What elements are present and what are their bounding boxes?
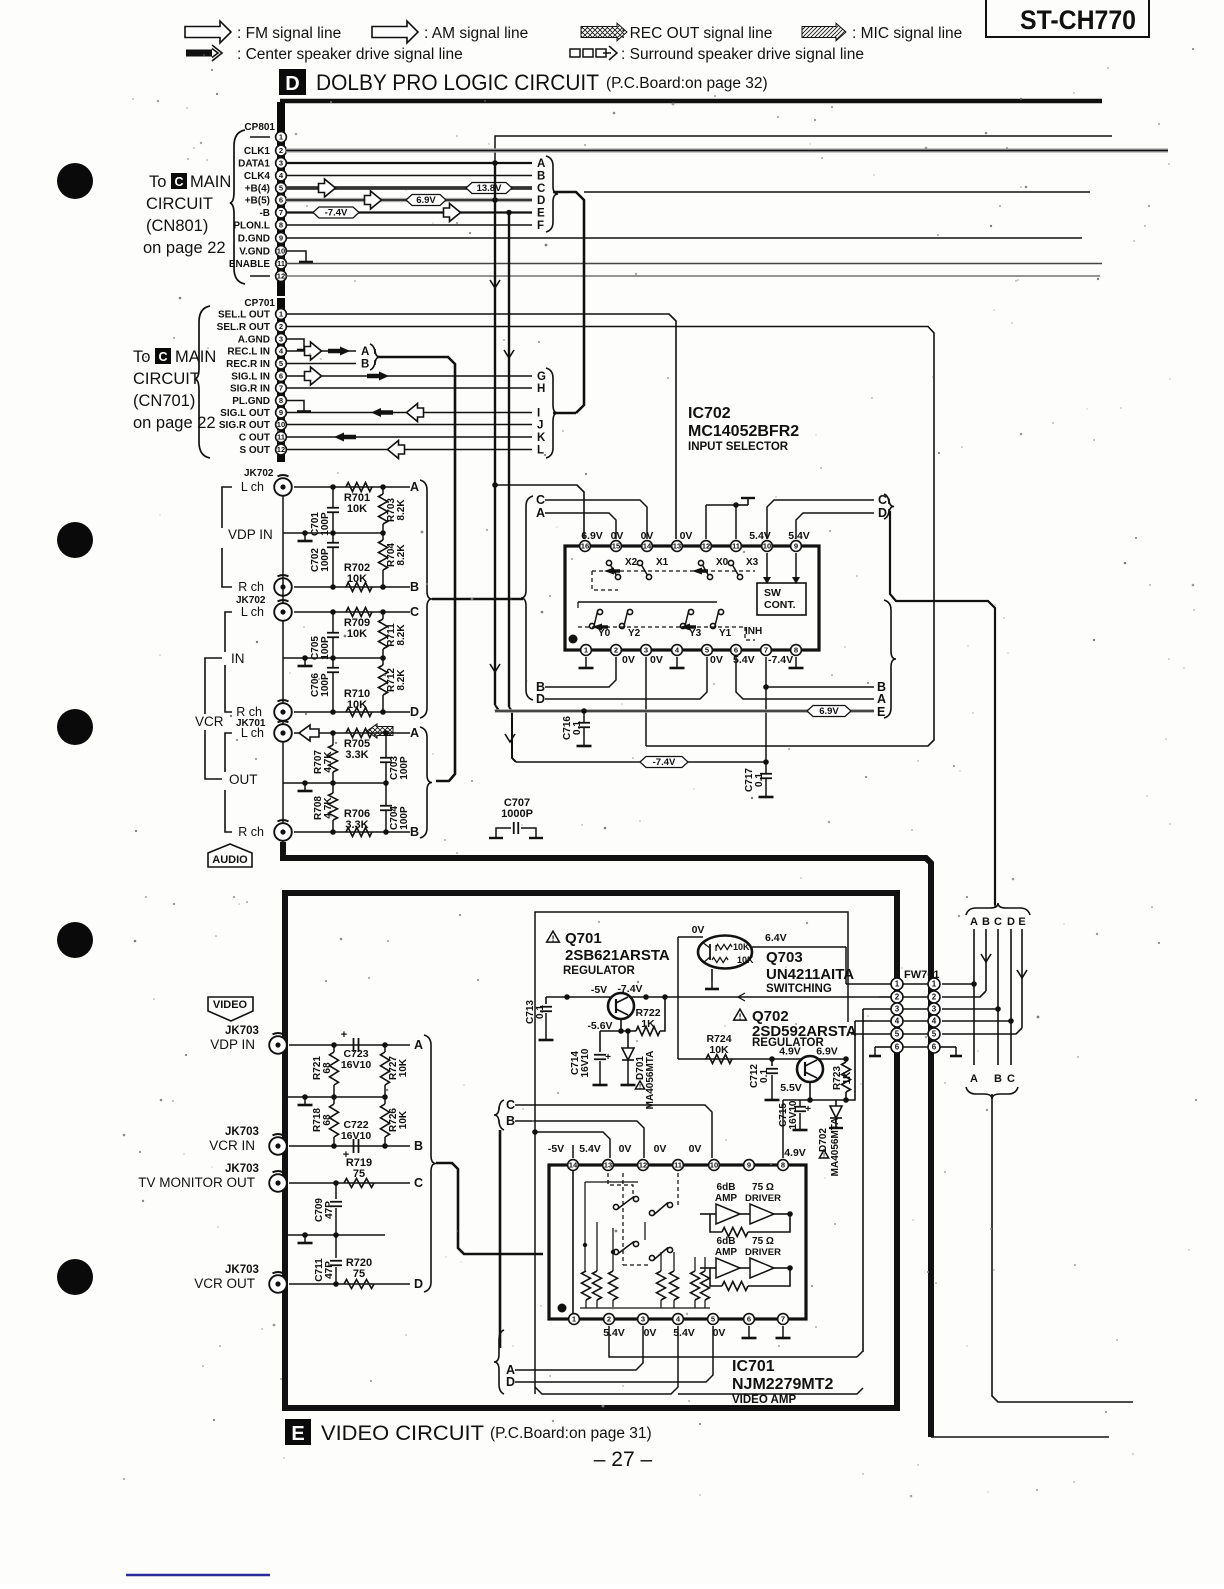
svg-text:13.8V: 13.8V [477, 183, 502, 194]
svg-text:-7.4V: -7.4V [653, 757, 676, 768]
node +B(5) junction [492, 197, 498, 203]
jack JK703 VCR IN [269, 1137, 287, 1155]
wire pin4 down [535, 1326, 678, 1394]
CP801 pin 11 ENABLE [229, 258, 287, 270]
wire R ch row D [294, 711, 410, 713]
svg-text:To: To [133, 348, 150, 366]
CP701 pin 4 REC.L IN [227, 346, 286, 358]
punch hole 2 [57, 522, 93, 558]
resistor R701 [346, 483, 372, 492]
wire VCR OUT row [289, 1283, 410, 1285]
resistor R723 [845, 1059, 847, 1062]
IC701 pin 14 [568, 1160, 579, 1171]
legend REC OUT signal line arrow [581, 23, 627, 41]
wire REC.R IN to B [286, 363, 356, 365]
net column A [973, 929, 975, 1065]
IC702 pin 4 [672, 645, 683, 656]
svg-text:D702: D702 [818, 1128, 829, 1152]
wire mid rail group2 [283, 657, 383, 659]
resistor R710 [346, 708, 372, 717]
FW701 inter wires [903, 983, 928, 985]
jack JK702 L ch [274, 478, 292, 496]
wire pins 11 12 ground [705, 505, 707, 539]
punch hole 5 [57, 1259, 93, 1295]
svg-text:A: A [361, 346, 369, 358]
IC702 pin 14 [642, 541, 653, 552]
punch hole 3 [57, 709, 93, 745]
svg-text:10: 10 [710, 1161, 718, 1170]
bracket C B video [494, 1100, 504, 1130]
svg-text:B: B [361, 359, 369, 371]
wire pin6 to A right [736, 657, 874, 699]
svg-text:: Center speaker drive signal: : Center speaker drive signal line [237, 46, 463, 63]
svg-text:ST-CH770: ST-CH770 [1020, 5, 1136, 35]
jack JK701 R ch [274, 823, 292, 841]
node rail C713 [564, 994, 570, 1000]
svg-text:1: 1 [895, 980, 900, 989]
capacitor C702 [327, 542, 339, 544]
wire FW5 to E [942, 1028, 1022, 1034]
svg-text:3: 3 [279, 335, 283, 344]
wire pin1 ground [585, 657, 587, 668]
transistor Q703 pack [698, 936, 752, 969]
svg-text:A: A [410, 726, 419, 740]
svg-text:-B: -B [259, 208, 270, 219]
svg-text:SW: SW [764, 587, 781, 599]
IC702 pin9 internal arrow [795, 553, 797, 577]
svg-text:Q701: Q701 [565, 930, 602, 947]
wire pin7 junctions [765, 657, 767, 762]
svg-text:DRIVER: DRIVER [745, 1247, 781, 1258]
wire SEL.R OUT to audio bus [286, 327, 934, 747]
svg-text:SWITCHING: SWITCHING [766, 983, 832, 995]
bracket IN [225, 612, 232, 652]
ground video rail 2 [304, 1235, 306, 1243]
wire 6.9V bus vertical [494, 163, 496, 705]
wire B right [766, 686, 874, 688]
svg-text:2: 2 [607, 1315, 611, 1324]
wire L ch row A jk701 [294, 732, 410, 734]
arrow on +B(4) [319, 179, 336, 197]
svg-text:NJM2279MT2: NJM2279MT2 [732, 1376, 833, 1393]
wire R ch row B jk701 [294, 831, 410, 833]
svg-text:CLK1: CLK1 [244, 146, 271, 157]
legend MIC signal line arrow [802, 23, 846, 41]
svg-text:JK702: JK702 [244, 468, 274, 479]
svg-text:0.1: 0.1 [572, 721, 583, 735]
IC702 pin 10 [762, 541, 773, 552]
svg-text:10K: 10K [398, 1110, 409, 1129]
legend surround speaker arrow [570, 46, 617, 60]
bracket VDP IN [222, 487, 232, 528]
svg-text:13: 13 [673, 542, 681, 551]
svg-text:INPUT SELECTOR: INPUT SELECTOR [688, 441, 789, 453]
IC701 pin 8 [778, 1160, 789, 1171]
punch hole 4 [57, 922, 93, 958]
svg-text:6: 6 [279, 196, 283, 205]
FW701 pin 2 right [928, 991, 940, 1003]
svg-text:7: 7 [781, 1315, 785, 1324]
svg-text:C: C [410, 605, 419, 619]
capacitor C704 [380, 805, 392, 807]
wire Q703 base [678, 936, 703, 938]
svg-text:8: 8 [279, 396, 283, 405]
capacitor C705 [327, 632, 339, 634]
svg-text:X2: X2 [625, 557, 638, 568]
svg-text:L ch: L ch [241, 726, 264, 740]
svg-text:H: H [537, 383, 545, 395]
wire SIG.L IN to G [286, 375, 532, 377]
resistor R706 [346, 828, 372, 837]
IC701 switch a [613, 1204, 618, 1209]
wire FW3 to C [942, 1008, 998, 1010]
FW701 pin 5 left [891, 1028, 903, 1040]
wire CLK4 to B [286, 175, 532, 177]
IC702 switch X1 [637, 560, 642, 565]
wire A-D bus to IC702 brackets [432, 598, 523, 601]
legend center speaker arrow [186, 50, 212, 57]
title separator rule [280, 99, 1102, 104]
svg-text:9: 9 [794, 542, 798, 551]
svg-text:A.GND: A.GND [238, 335, 270, 346]
arrow on S OUT [388, 441, 405, 459]
svg-text:CP701: CP701 [244, 298, 275, 309]
svg-text:6.9V: 6.9V [819, 706, 839, 717]
IC701 switch b [613, 1249, 618, 1254]
IC702 switch Y3 [680, 623, 685, 628]
audio tag [208, 844, 252, 867]
wire IC701 pin6 ground [748, 1326, 750, 1338]
wire brace stem [994, 905, 996, 908]
label -7.4V rail [640, 757, 688, 768]
svg-text:I: I [537, 408, 540, 420]
arrows on SIG.L IN [305, 367, 322, 385]
svg-text:1K: 1K [842, 1071, 853, 1085]
svg-text:(P.C.Board:on page 32): (P.C.Board:on page 32) [606, 75, 768, 92]
svg-text:-5V: -5V [591, 984, 607, 996]
svg-text:100P: 100P [320, 512, 331, 536]
IC701 pin 11 [673, 1160, 684, 1171]
resistor R712 [382, 658, 384, 665]
svg-text:100P: 100P [320, 673, 331, 697]
svg-text:VDP IN: VDP IN [210, 1037, 255, 1052]
resistor R708 [332, 783, 334, 793]
svg-text:!: ! [639, 1083, 641, 1090]
IC702 pin 15 [611, 541, 622, 552]
ground mid rail g2 [304, 658, 306, 666]
svg-text:J: J [537, 420, 543, 432]
svg-text:on page 22: on page 22 [133, 414, 216, 432]
svg-text:16V10: 16V10 [341, 1130, 372, 1142]
wire mid rail group1 [283, 532, 383, 534]
svg-text:ENABLE: ENABLE [229, 259, 270, 270]
IC702 pin 1 [581, 645, 592, 656]
bottom blue rule [126, 1574, 270, 1577]
IC702 pin1 marker [569, 635, 578, 644]
svg-text:B: B [994, 1073, 1002, 1085]
IC702 pin 6 [731, 645, 742, 656]
resistor R726 [384, 1097, 386, 1104]
svg-text:12: 12 [277, 272, 285, 281]
svg-text:(CN801): (CN801) [146, 217, 208, 235]
wire FW701-6 ground right [940, 1046, 956, 1048]
wire A to pin15 [545, 513, 616, 539]
svg-text:75: 75 [353, 1168, 365, 1180]
svg-text:11: 11 [674, 1161, 683, 1170]
resistor R707 [332, 733, 334, 745]
node mid rail g1 a [330, 530, 336, 536]
svg-text:100P: 100P [399, 756, 410, 780]
wire REC bus to JK701 [378, 357, 455, 781]
node C716 tap [581, 708, 587, 714]
wire pin14 riser [572, 1145, 574, 1158]
svg-text:X0: X0 [716, 557, 729, 568]
CP701 pin 1 SEL.L OUT [218, 309, 286, 321]
resistor R702 [346, 583, 372, 592]
svg-text:AMP: AMP [715, 1247, 738, 1258]
IC702 switch Y1 [710, 623, 715, 628]
bracket A D video out [494, 1330, 504, 1394]
svg-text:4: 4 [932, 1017, 937, 1026]
svg-text:0V: 0V [654, 1143, 667, 1155]
connector CP701 body [277, 298, 285, 462]
svg-text:L ch: L ch [241, 480, 264, 494]
wire Q702 emitter [809, 1082, 811, 1100]
jack JK701 L ch [274, 724, 292, 742]
FW701 pin 4 right [928, 1015, 940, 1027]
arrows on SIG.L OUT [371, 408, 393, 417]
capacitor C722 series [353, 1139, 355, 1153]
svg-text:0V: 0V [710, 654, 723, 666]
video box [285, 893, 897, 1408]
resistor R718 [333, 1097, 335, 1104]
svg-text:68: 68 [322, 1062, 333, 1074]
wire C to pin10 [515, 1105, 712, 1158]
svg-text:CP801: CP801 [244, 122, 275, 133]
arrow on C OUT [334, 433, 356, 442]
svg-text:11: 11 [277, 259, 286, 268]
svg-text:+B(5): +B(5) [245, 196, 270, 207]
capacitor C711 [335, 1235, 337, 1258]
svg-text:F: F [537, 220, 544, 232]
svg-text:X3: X3 [746, 557, 759, 568]
svg-text:8: 8 [279, 221, 283, 230]
label 6.9V on E [807, 706, 851, 717]
svg-text:0V: 0V [692, 924, 705, 936]
CP701 pin 11 C OUT [239, 432, 287, 444]
svg-text:CONT.: CONT. [764, 599, 796, 611]
svg-text:16V10: 16V10 [341, 1059, 372, 1071]
wire video A-D bus [436, 1163, 543, 1254]
ground mid rail g1 [304, 533, 306, 541]
svg-text:6dB: 6dB [717, 1236, 736, 1247]
svg-text:L: L [537, 445, 544, 457]
CP701 pin 7 SIG.R IN [230, 383, 286, 395]
wire A-F bus to right [553, 192, 584, 413]
wire SEL.L OUT to IC702 pin13 [286, 314, 676, 539]
IC701 pin 3 [638, 1314, 649, 1325]
resistor R721 [331, 1042, 337, 1048]
wire SIG.R IN to H [286, 387, 532, 389]
node 6.9V bus tap [492, 482, 498, 488]
node -B junction [506, 210, 512, 216]
svg-text:REC.L IN: REC.L IN [227, 347, 270, 358]
IC702 Y upper rail [577, 602, 579, 608]
svg-text:MA4056MTA: MA4056MTA [830, 1118, 841, 1177]
diode D702 [835, 1100, 837, 1106]
svg-text:UN4211AITA: UN4211AITA [766, 966, 854, 983]
CP701 pin 6 SIG.L IN [231, 371, 286, 383]
diode D701 [627, 1031, 629, 1048]
wire CP801-12 [286, 275, 1100, 277]
svg-text:A: A [536, 506, 545, 520]
capacitor C706 [327, 667, 339, 669]
audio bus [283, 842, 931, 1437]
svg-text:6.9V: 6.9V [816, 1046, 838, 1058]
svg-text:2: 2 [614, 646, 618, 655]
svg-text:8.2K: 8.2K [396, 624, 407, 646]
svg-text:4.9V: 4.9V [784, 1147, 806, 1159]
svg-text:DRIVER: DRIVER [745, 1193, 781, 1204]
FW701 pin 1 right [928, 978, 940, 990]
svg-text:+: + [805, 1104, 811, 1115]
svg-text:8.2K: 8.2K [396, 499, 407, 521]
IC701 pin 6 [744, 1314, 755, 1325]
svg-text:100P: 100P [399, 806, 410, 830]
svg-text:14: 14 [569, 1161, 578, 1170]
wire pin3 down [645, 657, 647, 746]
node R701 right [380, 484, 386, 490]
resistor R727 [382, 1042, 388, 1048]
svg-text:VCR OUT: VCR OUT [194, 1276, 255, 1291]
svg-text:: AM signal line: : AM signal line [424, 25, 528, 42]
label -7.4V on -B [313, 207, 359, 218]
svg-text:MA4056MTA: MA4056MTA [645, 1051, 656, 1110]
ground video rail 1 [304, 1097, 306, 1105]
transistor Q701 [608, 993, 634, 1019]
svg-text:12: 12 [277, 445, 285, 454]
IC702 pin 9 [791, 541, 802, 552]
CP701 pin 10 SIG.R OUT [219, 419, 287, 431]
wire G-L bus to top rail [553, 412, 576, 415]
legend AM signal line arrow [372, 21, 418, 43]
svg-text:47P: 47P [324, 1261, 335, 1279]
bracket C A B D left of IC702 [521, 496, 533, 700]
wire VCR IN row [289, 1145, 410, 1147]
svg-text:-7.4V: -7.4V [325, 208, 348, 219]
To C MAIN CIRCUIT (CN801) text [143, 173, 231, 257]
wire pin2 out [609, 1326, 616, 1357]
label 13.8V [466, 183, 512, 194]
wire CLK1 [286, 148, 1168, 152]
svg-text:10K: 10K [737, 955, 754, 965]
CP701 pin 2 SEL.R OUT [217, 321, 287, 333]
wire R724 rail [678, 1058, 846, 1060]
svg-text:0.1: 0.1 [759, 1069, 770, 1083]
svg-text:3: 3 [895, 1005, 900, 1014]
FW701 pin 3 right [928, 1003, 940, 1015]
wire L ch row A [294, 486, 410, 488]
svg-text:7: 7 [279, 384, 283, 393]
svg-text:100P: 100P [320, 636, 331, 660]
svg-text:11: 11 [732, 542, 741, 551]
svg-text:!: ! [552, 933, 555, 943]
wire +B(4) 13.8V to C [286, 186, 532, 190]
svg-text:G: G [537, 371, 546, 383]
svg-text:C: C [537, 183, 545, 195]
svg-text:E: E [291, 1423, 304, 1445]
svg-text:+: + [605, 1052, 611, 1063]
arrow on rail video [738, 993, 745, 1001]
svg-text:R ch: R ch [236, 705, 262, 719]
svg-text:CIRCUIT: CIRCUIT [133, 370, 200, 388]
IC701 pin 13 [603, 1160, 614, 1171]
svg-text:B: B [414, 1139, 423, 1153]
CP801 pin 5 +B(4) [245, 183, 287, 195]
svg-text:E: E [537, 208, 545, 220]
wire pin5 to D [515, 1326, 713, 1382]
jack JK703 TV MONITOR OUT [269, 1174, 287, 1192]
wire pin9 to D right [796, 513, 874, 539]
IC701 feedback r2 [710, 1268, 722, 1286]
svg-text:A: A [970, 1073, 978, 1085]
svg-text:3.3K: 3.3K [345, 749, 368, 761]
node C717 tap [763, 759, 769, 765]
svg-text:10: 10 [763, 542, 771, 551]
IC702 X bus dashed [592, 570, 755, 572]
svg-text:1000P: 1000P [501, 808, 533, 820]
svg-text:D.GND: D.GND [238, 234, 270, 245]
svg-text:IN: IN [231, 651, 245, 666]
IC702 pin 11 [731, 541, 742, 552]
svg-text:10K: 10K [709, 1044, 729, 1056]
capacitor C713 [545, 997, 547, 1004]
svg-text:4.7K: 4.7K [323, 751, 334, 773]
Q702 designator [734, 1009, 747, 1020]
FW701 pin 4 left [891, 1015, 903, 1027]
svg-text:B: B [537, 171, 545, 183]
svg-text:S OUT: S OUT [239, 445, 270, 456]
wire D.GND [286, 237, 1082, 239]
CP801 pin 3 DATA1 [238, 158, 286, 170]
IC702 switch X2 [606, 560, 611, 565]
Q701 designator [547, 931, 560, 942]
svg-text:C: C [1007, 1073, 1015, 1085]
svg-text:V.GND: V.GND [239, 247, 270, 258]
svg-text:5: 5 [932, 1030, 937, 1039]
svg-text:68: 68 [322, 1114, 333, 1126]
bracket VCR [205, 658, 222, 714]
svg-text:SIG.R IN: SIG.R IN [230, 384, 270, 395]
svg-text:C: C [506, 1098, 515, 1112]
wire FW2 to B [942, 991, 986, 997]
svg-text:6: 6 [895, 1043, 900, 1052]
svg-text:16V10: 16V10 [580, 1048, 591, 1077]
IC701 pin 7 [778, 1314, 789, 1325]
svg-text:MC14052BFR2: MC14052BFR2 [688, 423, 799, 440]
svg-text:SIG.L OUT: SIG.L OUT [220, 408, 270, 419]
svg-text:VIDEO CIRCUIT: VIDEO CIRCUIT [321, 1422, 484, 1445]
svg-text:: MIC signal line: : MIC signal line [852, 25, 962, 42]
CP701 brace [195, 306, 210, 458]
wire DATA1 to A [286, 162, 532, 164]
svg-text:R ch: R ch [238, 825, 264, 839]
svg-text:!: ! [823, 1152, 825, 1159]
brace lower ABC [966, 1087, 1018, 1099]
wire pin2 to B [545, 657, 616, 687]
svg-text:8.2K: 8.2K [396, 544, 407, 566]
model number box ST-CH770 [986, 0, 1149, 37]
